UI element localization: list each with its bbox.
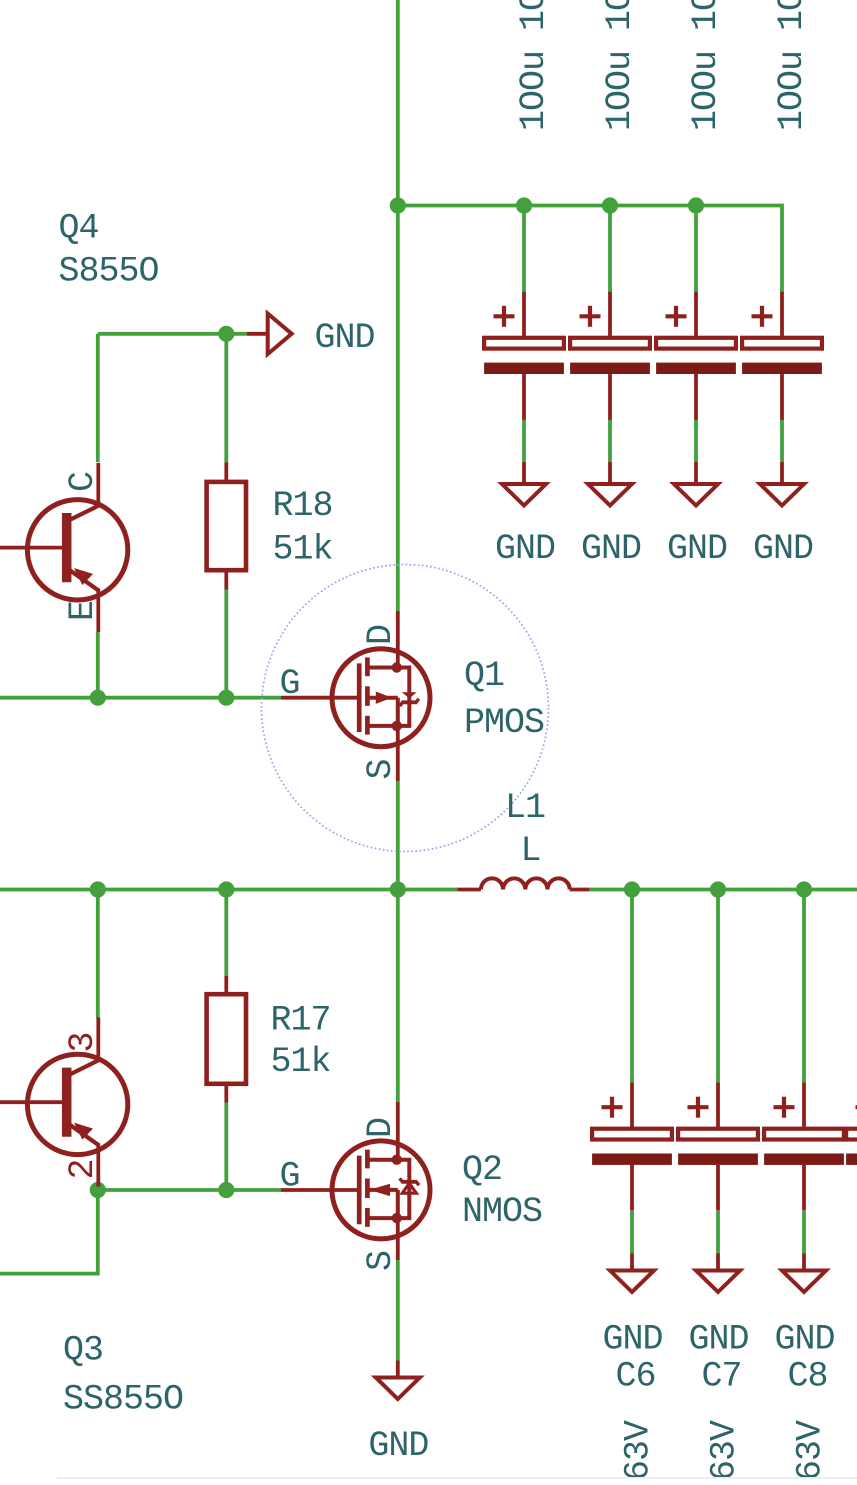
wire Q1 gate line bbox=[0, 696, 281, 700]
svg-text:GND: GND bbox=[495, 529, 555, 569]
svg-text:NMOS: NMOS bbox=[462, 1192, 542, 1232]
junction main rail / C6 bbox=[624, 881, 640, 897]
wire R18 top bbox=[224, 334, 228, 463]
wire main rail left bbox=[0, 888, 458, 892]
junction main rail / R17 bbox=[218, 881, 234, 897]
svg-text:L1: L1 bbox=[505, 788, 545, 828]
svg-text:G: G bbox=[280, 1157, 300, 1197]
wire main rail right bbox=[589, 888, 857, 892]
Q2 source pin lead bbox=[396, 1218, 400, 1260]
svg-text:GND: GND bbox=[753, 529, 813, 569]
svg-text:Q3: Q3 bbox=[63, 1331, 103, 1371]
junction VCC/top rail bbox=[390, 197, 406, 213]
svg-text:D: D bbox=[361, 625, 401, 645]
power symbol GND top3 (GND arrow) bbox=[674, 462, 718, 506]
svg-text:C7: C7 bbox=[701, 1357, 741, 1397]
inductor L1 bbox=[458, 878, 590, 889]
wire Q4 collector riser bbox=[96, 334, 100, 462]
power symbol GND C7 (GND arrow) bbox=[696, 1254, 740, 1293]
svg-text:C8: C8 bbox=[787, 1357, 827, 1397]
svg-text:G: G bbox=[280, 664, 300, 704]
wire bottom cap C8 to GND bbox=[802, 1211, 806, 1254]
svg-text:GND: GND bbox=[688, 1320, 748, 1360]
Q2 drain pin lead bbox=[396, 1102, 400, 1160]
svg-text:GND: GND bbox=[774, 1320, 834, 1360]
wire top cap 2 to GND bbox=[608, 420, 612, 463]
svg-text:S855O: S855O bbox=[59, 252, 159, 292]
junction Q3 emitter / Q2 gate line bbox=[90, 1182, 106, 1198]
svg-text:R18: R18 bbox=[273, 486, 333, 526]
svg-text:GND: GND bbox=[602, 1320, 662, 1360]
wire Q1 source drop bbox=[396, 781, 400, 890]
junction main rail / C7 bbox=[710, 881, 726, 897]
svg-text:Q2: Q2 bbox=[462, 1150, 502, 1190]
wire Q3 collector riser bbox=[96, 890, 100, 1019]
transistor Q4 (PNP S8550) bbox=[0, 463, 128, 632]
wire R17 bottom bbox=[224, 1102, 228, 1190]
svg-text:PMOS: PMOS bbox=[464, 703, 544, 743]
wire top cap 3 to GND bbox=[694, 420, 698, 463]
svg-text:S: S bbox=[361, 759, 401, 779]
wire top cap 2 drop bbox=[608, 206, 612, 293]
wire bottom cap C7 drop bbox=[716, 890, 720, 1084]
power symbol GND below Q2 (GND arrow) bbox=[376, 1361, 420, 1400]
wire R17 top bbox=[224, 890, 228, 977]
wire top cap 1 drop bbox=[522, 206, 526, 293]
svg-text:GND: GND bbox=[368, 1426, 428, 1466]
junction Q4 emitter / gate line bbox=[90, 690, 106, 706]
junction main rail / Q1-Q2 bbox=[390, 881, 406, 897]
power symbol GND C6 (GND arrow) bbox=[610, 1254, 654, 1293]
resistor R17 bbox=[207, 976, 246, 1103]
capacitor C7 100u 63V bbox=[678, 1083, 758, 1211]
transistor Q2 (NMOS) bbox=[332, 1141, 430, 1239]
power symbol GND top1 (GND arrow) bbox=[502, 462, 546, 506]
Q1 source pin lead bbox=[396, 726, 400, 781]
svg-text:C6: C6 bbox=[615, 1357, 655, 1397]
wire Q3 emitter exit bbox=[0, 1190, 98, 1274]
svg-text:L: L bbox=[521, 831, 541, 871]
junction R18 / gate line bbox=[218, 690, 234, 706]
svg-text:3: 3 bbox=[63, 1032, 103, 1052]
capacitor C8 100u 63V bbox=[764, 1083, 844, 1211]
Q2 gate pin lead bbox=[281, 1188, 361, 1192]
window edge hairline bbox=[57, 1477, 857, 1479]
capacitor C9 partial at right edge bbox=[846, 1097, 857, 1165]
svg-text:1OOu 1OV: 1OOu 1OV bbox=[514, 0, 554, 131]
svg-text:GND: GND bbox=[667, 529, 727, 569]
resistor R18 bbox=[207, 463, 246, 590]
wire bottom cap C6 drop bbox=[630, 890, 634, 1084]
wire Q2 gate line bbox=[98, 1188, 281, 1192]
wire Q3 emitter stub bbox=[96, 1184, 100, 1191]
svg-text:63V: 63V bbox=[619, 1420, 659, 1481]
junction top rail cap 2 bbox=[602, 197, 618, 213]
svg-text:51k: 51k bbox=[271, 1042, 331, 1082]
wire top rail horizontal bbox=[398, 206, 782, 293]
junction main rail / C8 bbox=[796, 881, 812, 897]
power symbol GND C8 (GND arrow) bbox=[782, 1254, 826, 1293]
svg-text:2: 2 bbox=[63, 1159, 103, 1179]
wire top cap 1 to GND bbox=[522, 420, 526, 463]
svg-text:S: S bbox=[361, 1251, 401, 1271]
power symbol GND flag (right arrow) bbox=[247, 314, 292, 355]
wire bottom cap C8 drop bbox=[802, 890, 806, 1084]
svg-text:1OOu 1OV: 1OOu 1OV bbox=[772, 0, 812, 131]
junction top rail cap 1 bbox=[516, 197, 532, 213]
svg-text:Q4: Q4 bbox=[59, 209, 99, 249]
wire top cap 3 drop bbox=[694, 206, 698, 293]
wire Q2 source drop bbox=[396, 1260, 400, 1361]
Q1 gate pin lead bbox=[281, 696, 361, 700]
capacitor C top2 100u bbox=[570, 292, 650, 420]
svg-text:63V: 63V bbox=[705, 1420, 745, 1481]
svg-text:1OOu 1OV: 1OOu 1OV bbox=[686, 0, 726, 131]
junction main rail / Q3 riser bbox=[90, 881, 106, 897]
wire bottom cap C6 to GND bbox=[630, 1211, 634, 1254]
wire Q4 emitter drop bbox=[96, 632, 100, 698]
transistor Q3 (PNP S8550) bbox=[0, 1017, 128, 1186]
svg-text:C: C bbox=[63, 472, 103, 492]
svg-text:51k: 51k bbox=[273, 530, 333, 570]
svg-text:1OOu 1OV: 1OOu 1OV bbox=[600, 0, 640, 131]
svg-text:GND: GND bbox=[315, 318, 375, 358]
svg-text:Q1: Q1 bbox=[464, 656, 504, 696]
wire R18 bottom bbox=[224, 589, 228, 698]
selection highlight circle around Q1 bbox=[262, 565, 549, 852]
junction top rail cap 3 bbox=[688, 197, 704, 213]
transistor Q1 (PMOS) bbox=[332, 649, 430, 747]
svg-text:63V: 63V bbox=[791, 1420, 831, 1481]
power symbol GND top4 (GND arrow) bbox=[760, 462, 804, 506]
capacitor C top3 100u bbox=[656, 292, 736, 420]
capacitor C6 100u 63V bbox=[592, 1083, 672, 1211]
svg-text:D: D bbox=[361, 1118, 401, 1138]
Q1 drain pin lead bbox=[396, 611, 400, 668]
wire VCC vertical main bbox=[396, 0, 400, 611]
junction R17 / Q2 gate line bbox=[218, 1182, 234, 1198]
svg-text:E: E bbox=[63, 601, 103, 621]
capacitor C top1 100u bbox=[484, 292, 564, 420]
svg-text:SS855O: SS855O bbox=[63, 1380, 183, 1420]
wire top cap 4 to GND bbox=[780, 420, 784, 463]
svg-text:R17: R17 bbox=[271, 1001, 331, 1041]
wire bottom cap C7 to GND bbox=[716, 1211, 720, 1254]
wire GND flag horizontal bbox=[98, 332, 247, 336]
power symbol GND top2 (GND arrow) bbox=[588, 462, 632, 506]
svg-text:GND: GND bbox=[581, 529, 641, 569]
wire Q2 drain drop bbox=[396, 890, 400, 1103]
capacitor C top4 100u bbox=[742, 292, 822, 420]
junction GND flag node bbox=[218, 326, 234, 342]
